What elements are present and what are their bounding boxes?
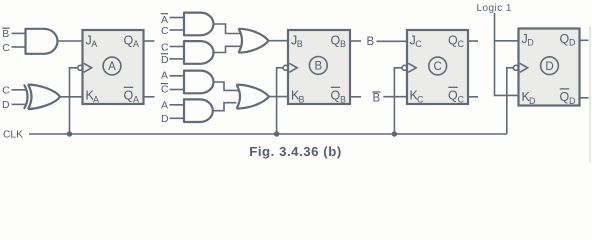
clock triangle FF D xyxy=(520,63,528,72)
svg-text:C: C xyxy=(161,25,169,37)
wire CLK riser to FF C clock xyxy=(394,68,402,134)
wire G2 output to KA xyxy=(60,96,83,98)
AND gate G1 xyxy=(26,29,58,54)
AND gate G6 xyxy=(184,99,213,122)
svg-text:C: C xyxy=(458,95,465,105)
XOR gate G2 xyxy=(24,85,60,110)
svg-text:D: D xyxy=(529,96,536,106)
wire C to G2 xyxy=(12,89,26,91)
wire QC stub xyxy=(469,40,479,42)
svg-text:Q: Q xyxy=(448,34,458,48)
pin QD label xyxy=(560,32,577,48)
wire D-bar to G4 xyxy=(170,58,185,60)
AND gate G4 xyxy=(184,41,214,64)
pin KC label xyxy=(410,89,425,105)
wire C to G3 xyxy=(170,29,185,31)
svg-text:D: D xyxy=(527,37,534,47)
pin QC label xyxy=(448,34,465,50)
pin JD label xyxy=(522,32,535,48)
wire G1 output to JA xyxy=(58,40,83,42)
svg-text:C: C xyxy=(415,39,422,49)
svg-text:B: B xyxy=(2,28,9,40)
svg-text:D: D xyxy=(569,96,576,106)
svg-text:Q: Q xyxy=(560,32,570,46)
wire CLK riser to FF A clock xyxy=(70,68,78,134)
svg-text:A: A xyxy=(161,100,168,112)
svg-text:Fig. 3.4.36 (b): Fig. 3.4.36 (b) xyxy=(249,144,342,159)
svg-text:B: B xyxy=(367,36,375,48)
pin QB label xyxy=(331,34,347,50)
wire G6 output to G8 xyxy=(213,103,237,111)
flip-flop A circled name xyxy=(103,57,121,75)
clock triangle FF B xyxy=(289,63,297,72)
page edge line xyxy=(589,26,591,163)
svg-text:Q: Q xyxy=(124,89,134,103)
svg-text:B: B xyxy=(297,39,303,49)
flip-flop B circled name xyxy=(309,57,327,75)
pin KD label xyxy=(522,90,537,106)
OR gate G7 xyxy=(239,29,269,53)
svg-text:C: C xyxy=(434,61,442,73)
wire Logic 1 branch to JD xyxy=(495,40,519,42)
wire B-bar to G1 xyxy=(12,32,26,34)
svg-text:A: A xyxy=(108,61,116,73)
pin JC label xyxy=(410,34,423,50)
node D-bar label (input to G4) xyxy=(161,54,169,66)
svg-text:A: A xyxy=(133,95,139,105)
wire G4 output to G7 xyxy=(214,46,241,52)
wire C to G1 xyxy=(12,46,26,48)
wire G7 output to JB xyxy=(269,40,289,42)
svg-text:A: A xyxy=(133,39,139,49)
clock bubble FF A xyxy=(78,65,83,70)
svg-text:C: C xyxy=(417,95,424,105)
wire CLK bus xyxy=(29,133,507,135)
flip-flop C circled name xyxy=(429,57,447,75)
pin KB label xyxy=(291,89,305,105)
node C-bar label (input to G5) xyxy=(161,84,169,96)
wire B to JC xyxy=(377,40,408,42)
svg-text:A: A xyxy=(161,14,168,26)
clock triangle FF A xyxy=(84,63,92,72)
clock bubble FF B xyxy=(283,65,288,70)
svg-text:B: B xyxy=(314,61,322,73)
svg-text:C: C xyxy=(2,42,10,54)
wire Logic 1 vertical to KD xyxy=(495,13,519,95)
svg-text:Q: Q xyxy=(124,34,134,48)
node B-bar label (input to G1) xyxy=(2,28,9,40)
pin QA label xyxy=(124,34,140,50)
wire QB-bar stub xyxy=(351,96,361,98)
svg-text:D: D xyxy=(161,54,169,66)
svg-text:C: C xyxy=(458,39,465,49)
svg-text:Q: Q xyxy=(331,34,341,48)
flip-flop B box xyxy=(288,30,350,104)
svg-text:D: D xyxy=(545,61,553,73)
wire QC-bar stub xyxy=(469,96,479,98)
wire G5 output to G8 xyxy=(214,82,239,90)
svg-text:D: D xyxy=(569,37,576,47)
clock bubble FF D xyxy=(514,65,519,70)
clock bubble FF C xyxy=(402,65,407,70)
svg-text:C: C xyxy=(2,85,10,97)
svg-text:Logic 1: Logic 1 xyxy=(477,3,512,14)
svg-text:B: B xyxy=(340,95,346,105)
wire C to G4 xyxy=(170,46,185,48)
wire QA stub xyxy=(145,40,155,42)
svg-text:D: D xyxy=(2,99,10,111)
svg-text:Q: Q xyxy=(448,89,458,103)
wire B-bar to KC xyxy=(383,96,407,98)
svg-text:A: A xyxy=(93,95,99,105)
pin JB label xyxy=(291,34,303,50)
pin JA label xyxy=(86,34,98,50)
wire QD-bar stub xyxy=(580,97,589,99)
svg-text:C: C xyxy=(161,84,169,96)
svg-text:Q: Q xyxy=(331,89,341,103)
pin QB-bar label xyxy=(331,87,347,104)
wire CLK riser to FF B clock xyxy=(277,68,284,134)
flip-flop D box xyxy=(519,29,580,106)
pin QC-bar label xyxy=(448,87,465,104)
wire CLK riser to FF D clock xyxy=(507,68,514,134)
svg-text:Q: Q xyxy=(560,90,570,104)
flip-flop A box xyxy=(83,30,144,104)
svg-text:B: B xyxy=(299,95,305,105)
OR gate G8 xyxy=(237,85,270,109)
junction CLK to FF A xyxy=(67,131,72,136)
AND gate G3 xyxy=(184,13,213,36)
flip-flop D circled name xyxy=(541,57,559,75)
wire C-bar to G5 xyxy=(170,89,185,91)
wire G3 output to G7 xyxy=(214,24,241,34)
wire QA-bar stub xyxy=(145,96,155,98)
wire A-bar to G3 xyxy=(170,17,185,19)
svg-text:A: A xyxy=(161,70,168,82)
svg-text:C: C xyxy=(161,42,169,54)
svg-text:D: D xyxy=(161,113,169,125)
junction CLK to FF B xyxy=(274,131,279,136)
wire QB stub xyxy=(351,40,361,42)
pin QD-bar label xyxy=(560,89,577,106)
wire D to G2 xyxy=(12,103,26,105)
wire A to G6 xyxy=(170,104,185,106)
wire A to G5 xyxy=(170,75,185,77)
pin QA-bar label xyxy=(124,87,140,104)
junction CLK to FF C xyxy=(392,131,397,136)
svg-text:B: B xyxy=(373,93,381,105)
wire G8 output to KB xyxy=(269,96,288,98)
svg-text:CLK: CLK xyxy=(3,129,23,140)
node B-bar label (input to KC) xyxy=(372,92,380,105)
wire QD stub xyxy=(580,39,589,41)
flip-flop C box xyxy=(407,30,468,104)
wire D to G6 xyxy=(170,117,185,119)
node A-bar label (input to G3) xyxy=(161,14,168,26)
clock triangle FF C xyxy=(408,63,416,72)
svg-text:B: B xyxy=(340,39,346,49)
AND gate G5 xyxy=(184,71,214,94)
pin KA label xyxy=(86,89,100,105)
svg-text:A: A xyxy=(91,39,97,49)
